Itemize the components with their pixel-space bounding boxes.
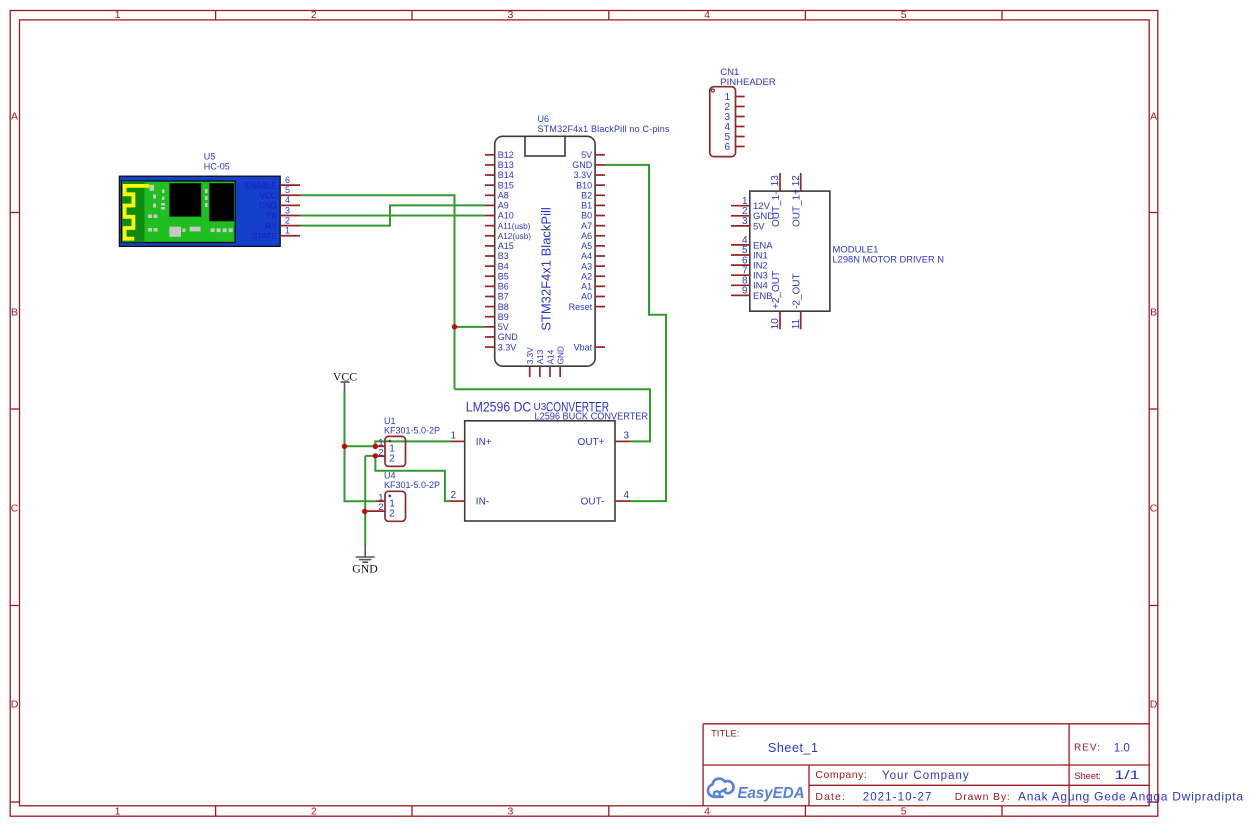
pin GND of U6 (bottom) <box>556 346 565 377</box>
svg-text:STM32F4x1 BlackPill no C-pins: STM32F4x1 BlackPill no C-pins <box>538 124 671 134</box>
svg-text:A4: A4 <box>581 251 592 261</box>
wire VCC branch to U1 pin1 <box>345 445 376 447</box>
pin 6 ENABLE of U5 <box>245 175 300 190</box>
svg-text:D: D <box>11 699 19 711</box>
pin A13 of U6 (bottom) <box>536 349 545 377</box>
svg-text:GND: GND <box>352 561 378 575</box>
svg-text:3: 3 <box>507 805 513 817</box>
pin B2 of U6 (right) <box>581 190 605 200</box>
svg-text:5: 5 <box>285 185 290 195</box>
pin GND of U6 (right) <box>572 160 605 170</box>
pin 4 GND of U5 <box>259 195 300 210</box>
pin 7 IN3 of MODULE1 <box>731 265 768 281</box>
svg-text:Sheet:: Sheet: <box>1074 771 1101 782</box>
svg-text:VCC: VCC <box>333 369 357 383</box>
svg-text:B7: B7 <box>498 292 509 302</box>
svg-text:3: 3 <box>507 9 513 21</box>
svg-text:6: 6 <box>285 175 290 185</box>
pin 4 ENA of MODULE1 <box>731 235 773 251</box>
pin 4 of CN1 <box>724 122 744 133</box>
pin A7 of U6 (right) <box>581 221 605 231</box>
pin 8 IN4 of MODULE1 <box>731 276 768 292</box>
pin Reset of U6 (right) <box>569 302 605 312</box>
component U6 STM32F4x1 BlackPill <box>495 114 670 366</box>
svg-text:2: 2 <box>450 490 456 501</box>
svg-text:OUT-: OUT- <box>581 497 605 508</box>
svg-text:Vbat: Vbat <box>574 342 593 352</box>
svg-text:C: C <box>1150 503 1158 515</box>
svg-text:U5: U5 <box>204 152 216 162</box>
svg-text:4: 4 <box>285 195 290 205</box>
pin B4 of U6 (left) <box>485 261 509 271</box>
pin 2 of CN1 <box>724 102 744 113</box>
svg-text:D: D <box>1150 699 1158 711</box>
svg-text:3: 3 <box>742 216 748 227</box>
title block <box>703 724 1149 806</box>
svg-text:TITLE:: TITLE: <box>711 729 740 740</box>
svg-text:A7: A7 <box>581 221 592 231</box>
svg-text:12: 12 <box>791 175 802 187</box>
svg-text:GND: GND <box>556 346 565 364</box>
svg-text:6: 6 <box>724 142 730 153</box>
pin 4 OUT- of U3 <box>581 490 630 507</box>
pin A6 of U6 (right) <box>581 231 605 241</box>
pin B1 of U6 (right) <box>581 201 605 211</box>
junction VCC/U1 pin1 <box>342 444 347 449</box>
svg-text:A: A <box>1150 111 1157 123</box>
svg-text:B3: B3 <box>498 251 509 261</box>
svg-text:A8: A8 <box>498 190 509 200</box>
wire VCC flag to U4 pin1 <box>345 391 376 501</box>
pin 3.3V of U6 (right) <box>574 170 605 180</box>
pin B5 of U6 (left) <box>485 271 509 281</box>
component MODULE1 L298N motor driver <box>750 191 944 311</box>
svg-text:OUT_1-: OUT_1- <box>771 191 782 227</box>
svg-text:C: C <box>11 503 19 515</box>
pin A3 of U6 (right) <box>581 261 605 271</box>
svg-text:LM2596 DC: LM2596 DC <box>466 399 532 415</box>
pin B10 of U6 (right) <box>576 180 605 190</box>
pin 2 of U4 <box>367 502 396 519</box>
svg-text:A0: A0 <box>581 292 592 302</box>
pin 2 RX of U5 <box>265 215 300 230</box>
svg-text:+2_OUT: +2_OUT <box>771 271 782 309</box>
svg-text:KF301-5.0-2P: KF301-5.0-2P <box>384 480 440 490</box>
pin 5V of U6 (left) <box>485 322 509 332</box>
svg-text:KF301-5.0-2P: KF301-5.0-2P <box>384 426 440 436</box>
svg-text:B9: B9 <box>498 312 509 322</box>
svg-text:B14: B14 <box>498 170 514 180</box>
svg-text:3.3V: 3.3V <box>574 170 593 180</box>
svg-text:GND: GND <box>498 332 519 342</box>
svg-text:5V: 5V <box>498 322 509 332</box>
pin 6 of CN1 <box>724 142 744 153</box>
svg-text:B2: B2 <box>581 190 592 200</box>
svg-text:B6: B6 <box>498 282 509 292</box>
wire branch to U6 5V pin <box>455 326 486 328</box>
svg-text:RX: RX <box>265 222 277 231</box>
svg-text:11: 11 <box>791 318 802 329</box>
svg-text:Reset: Reset <box>569 302 593 312</box>
svg-text:A3: A3 <box>581 261 592 271</box>
svg-text:A12(usb): A12(usb) <box>498 232 531 241</box>
svg-text:3.3V: 3.3V <box>498 342 517 352</box>
svg-text:STM32F4x1 BlackPill: STM32F4x1 BlackPill <box>539 207 554 331</box>
pin B0 of U6 (right) <box>581 211 605 221</box>
svg-text:Company:: Company: <box>815 769 866 781</box>
pin B15 of U6 (left) <box>485 180 514 190</box>
svg-text:A14: A14 <box>546 349 555 364</box>
junction U4 pin2 <box>362 509 367 514</box>
svg-text:A2: A2 <box>581 271 592 281</box>
junction at U6 5V pin <box>452 324 457 329</box>
svg-text:2: 2 <box>311 9 317 21</box>
wire U1 pin1 to LM2596 IN+ <box>375 441 450 446</box>
svg-text:A11(usb): A11(usb) <box>498 222 531 231</box>
pin 1 of U4 <box>375 492 395 509</box>
pin 11 -2_OUT of MODULE1 (bottom) <box>791 273 803 329</box>
svg-text:B: B <box>1150 307 1157 319</box>
pin 2 GND of MODULE1 <box>731 206 774 222</box>
pin 3 of CN1 <box>724 112 744 123</box>
component U4 KF301-5.0-2P <box>384 471 440 522</box>
svg-text:B12: B12 <box>498 150 514 160</box>
svg-text:4: 4 <box>624 490 630 501</box>
svg-text:4: 4 <box>704 805 710 817</box>
svg-text:1: 1 <box>450 430 456 441</box>
svg-text:10: 10 <box>770 318 781 330</box>
component U3 L2596 BUCK CONVERTER <box>465 402 648 521</box>
pin A15 of U6 (left) <box>485 241 514 251</box>
pin 12 OUT_1+ of MODULE1 (top) <box>791 173 803 227</box>
svg-text:3: 3 <box>285 205 290 215</box>
power flag VCC <box>333 369 357 391</box>
svg-text:STATE: STATE <box>252 232 277 241</box>
pin A4 of U6 (right) <box>581 251 605 261</box>
pin A2 of U6 (right) <box>581 271 605 281</box>
pin A9 of U6 (left) <box>485 201 509 211</box>
svg-text:A6: A6 <box>581 231 592 241</box>
wire to LM2596 OUT+ <box>455 389 651 441</box>
pin A10 of U6 (left) <box>485 211 514 221</box>
pin B6 of U6 (left) <box>485 282 509 292</box>
pin A1 of U6 (right) <box>581 282 605 292</box>
pin 10 +2_OUT of MODULE1 (bottom) <box>770 271 782 329</box>
svg-text:1: 1 <box>285 226 290 236</box>
pin A12(usb) of U6 (left) <box>485 232 531 241</box>
svg-text:GND: GND <box>259 202 277 211</box>
svg-text:5V: 5V <box>581 150 592 160</box>
EasyEDA logo <box>708 779 805 802</box>
junction U1 pin2 <box>373 453 378 458</box>
svg-text:A13: A13 <box>536 349 545 364</box>
pin 3.3V of U6 (left) <box>485 342 516 352</box>
svg-text:IN+: IN+ <box>476 437 492 448</box>
svg-text:3: 3 <box>624 430 630 441</box>
pin B3 of U6 (left) <box>485 251 509 261</box>
pin 1 of CN1 <box>724 92 744 103</box>
pin 5 of CN1 <box>724 132 744 143</box>
wire HC-05 RX to U6 A9 <box>300 205 485 225</box>
pin 5 IN1 of MODULE1 <box>731 245 768 261</box>
svg-text:-2_OUT: -2_OUT <box>792 273 803 309</box>
svg-text:ENB: ENB <box>753 291 773 302</box>
pin B12 of U6 (left) <box>485 150 514 160</box>
svg-text:B4: B4 <box>498 261 509 271</box>
svg-text:L298N MOTOR DRIVER N: L298N MOTOR DRIVER N <box>833 255 945 266</box>
svg-text:Your Company: Your Company <box>882 770 969 782</box>
pin B7 of U6 (left) <box>485 292 509 302</box>
svg-text:A5: A5 <box>581 241 592 251</box>
pin A0 of U6 (right) <box>581 292 605 302</box>
wire U6 GND to LM2596 OUT- <box>605 165 666 501</box>
svg-text:A15: A15 <box>498 241 514 251</box>
pin A5 of U6 (right) <box>581 241 605 251</box>
pin 9 ENB of MODULE1 <box>731 286 773 302</box>
svg-text:TX: TX <box>266 212 277 221</box>
svg-text:5V: 5V <box>753 221 765 232</box>
wire U1 pin2 / U4 pin2 to GND flag <box>364 456 366 546</box>
svg-text:HC-05: HC-05 <box>204 162 230 172</box>
svg-text:B8: B8 <box>498 302 509 312</box>
svg-text:13: 13 <box>770 175 781 187</box>
pin A8 of U6 (left) <box>485 190 509 200</box>
pin A14 of U6 (bottom) <box>546 349 555 377</box>
junction U1 pin1 <box>373 444 378 449</box>
svg-text:B13: B13 <box>498 160 514 170</box>
svg-text:2: 2 <box>378 447 383 458</box>
svg-text:4: 4 <box>704 9 710 21</box>
svg-text:Anak Agung Gede Angga Dwipradi: Anak Agung Gede Angga Dwipradipta <box>1018 789 1243 803</box>
pin 13 OUT_1- of MODULE1 (top) <box>770 173 782 227</box>
pin 5V of U6 (right) <box>581 150 605 160</box>
pin 6 IN2 of MODULE1 <box>731 255 768 271</box>
svg-text:A10: A10 <box>498 211 514 221</box>
pin 3.3V of U6 (bottom) <box>526 347 535 377</box>
svg-text:Drawn By:: Drawn By: <box>955 791 1010 803</box>
svg-text:2: 2 <box>389 508 395 519</box>
svg-text:B5: B5 <box>498 271 509 281</box>
svg-text:U6: U6 <box>538 114 550 124</box>
svg-text:A: A <box>11 111 18 123</box>
pin A11(usb) of U6 (left) <box>485 222 531 231</box>
svg-text:1.0: 1.0 <box>1114 743 1130 755</box>
pin B13 of U6 (left) <box>485 160 514 170</box>
svg-text:5: 5 <box>901 9 907 21</box>
svg-text:OUT_1+: OUT_1+ <box>792 189 803 227</box>
pin 3 OUT+ of U3 <box>578 430 630 447</box>
svg-text:2021-10-27: 2021-10-27 <box>863 791 932 803</box>
svg-text:B0: B0 <box>581 211 592 221</box>
wire U1 pin2 branch <box>365 455 375 457</box>
svg-text:U4: U4 <box>384 471 396 481</box>
pin 3 TX of U5 <box>266 205 300 220</box>
svg-text:1: 1 <box>115 805 121 817</box>
wire HC-05 VCC to U6 5V / OUT+ net <box>300 195 455 389</box>
pin 1 STATE of U5 <box>252 226 300 241</box>
svg-text:2: 2 <box>311 805 317 817</box>
pin 3 5V of MODULE1 <box>731 216 765 232</box>
svg-text:ENABLE: ENABLE <box>245 181 277 190</box>
svg-text:REV:: REV: <box>1074 743 1100 754</box>
svg-text:2: 2 <box>389 453 395 464</box>
ground flag GND <box>352 546 378 576</box>
svg-text:IN-: IN- <box>476 497 489 508</box>
pin Vbat of U6 <box>574 342 605 352</box>
pin 2 of U1 <box>375 447 395 464</box>
wire U1 pin2 to LM2596 IN- <box>375 456 450 501</box>
svg-text:U1: U1 <box>384 416 396 426</box>
svg-text:A9: A9 <box>498 201 509 211</box>
wire HC-05 TX to U6 A10 <box>300 215 485 217</box>
svg-text:B: B <box>11 307 18 319</box>
svg-text:Date:: Date: <box>815 791 845 803</box>
pin 2 IN- of U3 <box>450 490 489 507</box>
pin 1 12V of MODULE1 <box>731 196 771 212</box>
pin 1 of U1 <box>375 437 395 454</box>
svg-text:B10: B10 <box>576 180 592 190</box>
component U5 HC-05 bluetooth module <box>119 152 280 247</box>
svg-text:EasyEDA: EasyEDA <box>738 785 805 802</box>
pin B14 of U6 (left) <box>485 170 514 180</box>
svg-text:Sheet_1: Sheet_1 <box>768 741 818 755</box>
component CN1 PINHEADER <box>710 67 776 157</box>
pin B9 of U6 (left) <box>485 312 509 322</box>
pin GND of U6 (left) <box>485 332 518 342</box>
svg-text:2: 2 <box>378 502 383 513</box>
pin 1 IN+ of U3 <box>450 430 491 447</box>
svg-text:B1: B1 <box>581 201 592 211</box>
svg-text:9: 9 <box>742 286 748 297</box>
svg-text:GND: GND <box>572 160 593 170</box>
svg-text:1/1: 1/1 <box>1114 770 1140 782</box>
pin B8 of U6 (left) <box>485 302 509 312</box>
svg-text:3.3V: 3.3V <box>526 347 535 364</box>
svg-text:A1: A1 <box>581 282 592 292</box>
svg-text:VCC: VCC <box>260 191 277 200</box>
svg-text:1: 1 <box>115 9 121 21</box>
pin 5 VCC of U5 <box>260 185 300 200</box>
svg-text:5: 5 <box>901 805 907 817</box>
svg-text:OUT+: OUT+ <box>578 437 605 448</box>
component U1 KF301-5.0-2P <box>384 416 440 466</box>
svg-text:B15: B15 <box>498 180 514 190</box>
svg-text:2: 2 <box>285 215 290 225</box>
